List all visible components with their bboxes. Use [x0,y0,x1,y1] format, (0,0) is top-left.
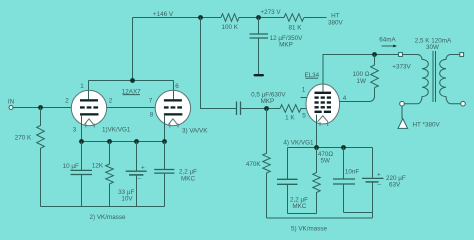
junction dot plate rail [130,78,135,83]
svg-text:–: – [378,181,382,188]
capacitor C 220uF electrolytic [372,148,374,178]
svg-text:270 K: 270 K [15,135,32,142]
svg-text:+373V: +373V [392,64,411,71]
EL34 anode lead inside envelope [322,85,324,93]
svg-text:100 K: 100 K [221,24,238,31]
wire EL34 anode up to OT [323,55,399,85]
tube V1a 12AX7 triode 1 envelope [71,90,106,125]
wire to HT [304,17,327,19]
wire cathode drop triode1 [81,115,83,142]
triode2 anode bar [164,99,182,101]
resistor R 470R 5W [313,148,320,214]
wire vertical feed to triode plates [132,18,134,81]
triode1 cathode bar [80,113,99,115]
svg-text:12K: 12K [92,162,104,169]
svg-text:380V: 380V [328,19,344,26]
svg-text:–: – [138,175,142,182]
wire ground link 10nF to 220uF [344,212,373,214]
resistor R 270K [37,108,45,207]
svg-text:63V: 63V [389,181,401,188]
svg-text:7: 7 [149,98,153,105]
svg-text:+: + [377,172,381,179]
svg-text:1: 1 [80,83,84,90]
triode2 anode lead inside envelope [173,91,175,100]
triode1 grid dashes [80,106,85,108]
svg-text:30W: 30W [426,44,439,51]
capacitor C 10nF [343,148,345,179]
resistor R 100R screen [371,55,379,88]
triode1 heater [85,119,94,125]
junction dot plate feed node [198,15,203,20]
wire top rail +146V segment [133,17,222,19]
svg-text:5W: 5W [320,158,330,165]
wire grid link triode1 to triode2 [107,107,156,109]
svg-text:+273 V: +273 V [260,9,281,16]
wire cathode rail right section [288,147,373,149]
svg-text:HT *380V: HT *380V [413,121,441,128]
svg-text:81 K: 81 K [289,24,303,31]
wire plate drop triode1 pin 1 [88,81,90,92]
transformer core [432,51,434,102]
junction dot cathode rail 2 [107,139,112,144]
wire plate drop triode2 pin 6 [173,81,175,92]
svg-text:IN: IN [8,99,15,106]
junction dot 10nF tap [341,145,346,150]
triode2 cathode bar [164,113,183,115]
power symbol HT triangle [398,119,408,129]
junction dot anode node [372,52,377,57]
svg-text:2) VK/masse: 2) VK/masse [90,214,127,221]
EL34 grid g1 dashes [315,106,319,108]
svg-text:100 Ω: 100 Ω [353,71,370,78]
wire secondary top to terminal [451,54,460,56]
resistor R 81K [284,14,304,22]
svg-text:+: + [141,164,145,171]
tube V1b 12AX7 triode 2 envelope [155,90,190,125]
junction dot EL34 grid node [264,106,269,111]
svg-text:4) VK/VG1: 4) VK/VG1 [283,139,314,146]
wire ground rail left section [41,206,165,208]
EL34 grid g2 dashes [315,101,319,103]
terminal circle OT secondary bottom [461,101,466,106]
transformer T1 primary winding [404,55,428,104]
wire cathode rail [82,141,165,143]
triode2 heater pin stubs [169,124,171,128]
wire plate tap down to coupling cap [201,18,237,109]
transformer T1 secondary winding [440,55,461,104]
junction dot cathode rail 4 [162,139,167,144]
EL34 suppressor dashes [315,111,322,113]
svg-text:10nF: 10nF [345,169,360,176]
svg-text:10 µF: 10 µF [63,163,79,170]
triode1 anode bar [80,99,98,101]
EL34 heater pin stubs [319,122,321,126]
terminal square OT primary top [399,53,403,57]
svg-text:1W: 1W [356,78,366,85]
triode1 heater pin stubs [85,124,87,128]
terminal square OT secondary top [460,53,464,57]
pin 4 wire to screen resistor [340,88,375,102]
svg-text:6: 6 [175,83,179,90]
svg-text:8: 8 [150,112,154,119]
svg-text:64mA: 64mA [379,36,396,43]
svg-text:MKC: MKC [181,176,195,183]
wire ground rail lower right section [267,217,373,219]
svg-text:3) VA/VK: 3) VA/VK [182,128,208,135]
svg-text:MKP: MKP [261,98,275,105]
svg-text:1)VK/VG1: 1)VK/VG1 [102,127,131,134]
svg-text:1 K: 1 K [285,115,295,122]
svg-text:2,2 µF: 2,2 µF [179,169,197,176]
resistor R 1K grid stopper [280,105,306,113]
svg-text:MKC: MKC [292,203,306,210]
wire plate rail of 12AX7 [89,80,174,82]
capacitor C 0,5uF/630V [236,102,238,116]
wire cathode drop triode2 [164,115,166,142]
resistor R 100K [221,14,239,22]
ground bar under 12uF [254,74,265,76]
wire ground rail right section upper [288,213,317,215]
pin 1 stub [301,97,307,99]
junction dot cathode rail 3 [134,139,139,144]
capacitor C 2,2uF MKC left [164,142,166,170]
wire between 100K and 81K [239,17,284,19]
EL34 cathode heater [318,116,328,122]
wire IN to grid pin 2 [13,107,72,109]
capacitor C 12uF/350V [258,18,260,34]
EL34 grid g3 dashes [315,96,319,98]
terminal circle OT primary bottom [400,101,405,106]
EL34 anode bar [315,92,332,94]
svg-text:2: 2 [65,98,69,105]
triode2 heater [168,119,177,125]
triode2 grid dashes [164,106,169,108]
resistor R 470K grid leak [263,109,270,219]
svg-text:1: 1 [302,86,306,93]
svg-text:10V: 10V [121,196,133,203]
capacitor C 2,2uF MKC right [287,148,289,179]
tube V2 EL34 envelope [306,84,340,124]
svg-text:2: 2 [109,98,113,105]
junction dot cathode rail 1 [79,139,84,144]
svg-text:4: 4 [343,95,347,102]
svg-text:5: 5 [302,113,306,120]
svg-text:3: 3 [73,127,77,134]
wire HT drop [401,106,403,119]
triode1 anode lead inside envelope [88,91,90,100]
resistor R 12K [106,142,114,207]
junction dot +273V node [256,15,261,20]
svg-text:5) VK/masse: 5) VK/masse [291,226,328,233]
svg-text:470K: 470K [246,161,262,168]
capacitor C 10uF [81,142,83,171]
wire cap to EL34 grid node [241,108,280,110]
arrow 64mA [382,45,394,47]
svg-text:HT: HT [331,12,340,19]
wire EL34 cathode drop [316,115,318,148]
svg-text:+146 V: +146 V [153,11,174,18]
capacitor C 33uF electrolytic [136,142,138,171]
svg-text:MKP: MKP [279,42,293,49]
junction dot EL34 cathode [314,145,319,150]
wire square to OT primary [402,54,417,56]
junction dot input node [38,105,43,110]
